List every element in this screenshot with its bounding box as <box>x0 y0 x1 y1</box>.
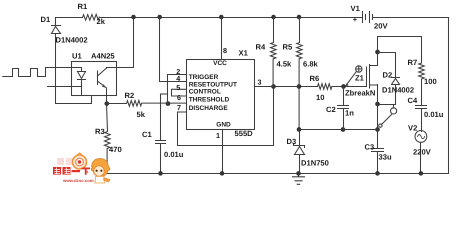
svg-text:R2: R2 <box>125 91 135 100</box>
label D1N750 <box>301 159 329 168</box>
svg-text:RESETOUTPUT: RESETOUTPUT <box>189 81 237 88</box>
source V2 <box>415 131 427 174</box>
wire collector to rail <box>107 18 134 68</box>
label D3 <box>287 137 297 146</box>
resistor R2 <box>107 100 187 106</box>
node R5 rail junction <box>297 15 302 20</box>
node emitter junction <box>104 101 109 106</box>
label R7 <box>408 58 418 67</box>
wire pin8 vcc <box>221 18 223 60</box>
svg-text:470: 470 <box>109 145 122 154</box>
node collector rail junction <box>131 15 136 20</box>
diode D2 <box>392 78 400 105</box>
node C2 bottom junction <box>341 127 346 132</box>
label 4.5k <box>277 60 293 69</box>
svg-text:7: 7 <box>177 103 181 112</box>
label D2 <box>383 70 393 79</box>
svg-text:C4: C4 <box>408 96 418 105</box>
svg-text:0.01u: 0.01u <box>164 150 184 159</box>
label V2 <box>408 124 417 133</box>
svg-text:D2: D2 <box>383 70 393 79</box>
svg-text:6: 6 <box>177 93 181 102</box>
pin number 3 <box>258 78 262 87</box>
phototransistor <box>98 68 107 104</box>
label 5k <box>137 110 146 119</box>
label 33u <box>379 153 392 162</box>
wire pin4 reset <box>160 18 187 82</box>
optocoupler U1 box <box>72 62 117 96</box>
label X1 <box>239 49 249 58</box>
svg-text:R7: R7 <box>408 58 418 67</box>
watermark badge mascot <box>73 153 87 169</box>
node drain junction <box>375 50 380 55</box>
label Z1 <box>355 74 365 83</box>
node pin4 rail junction <box>157 15 162 20</box>
label DISCHARGE <box>189 105 229 112</box>
watermark girl mascot <box>91 159 110 184</box>
svg-text:555D: 555D <box>235 129 254 138</box>
probe marker Z1 <box>346 66 362 87</box>
svg-text:D3: D3 <box>287 137 297 146</box>
wire pin3 output <box>255 86 367 88</box>
wire pin1 gnd <box>222 130 224 174</box>
pin number 6 <box>177 93 181 102</box>
label C1 <box>142 130 152 139</box>
label CONTROL <box>189 89 221 96</box>
battery V1 <box>363 12 373 23</box>
label C2 <box>326 105 336 114</box>
resistor R3 <box>104 104 110 174</box>
label 20V <box>374 22 388 31</box>
wire top rail left <box>56 17 363 19</box>
resistor R4 <box>270 18 276 87</box>
svg-text:100: 100 <box>424 77 437 86</box>
label R4 <box>256 43 266 52</box>
svg-text:0.01u: 0.01u <box>424 110 444 119</box>
label D1 <box>41 15 51 24</box>
svg-text:5k: 5k <box>137 110 146 119</box>
label 6.8k <box>303 60 319 69</box>
label D1N4002 of D2 <box>382 86 414 95</box>
label 555D <box>235 129 254 138</box>
label 2k <box>97 17 106 26</box>
svg-text:D1N750: D1N750 <box>301 159 329 168</box>
node zener top junction <box>297 127 302 132</box>
pin number 8 <box>223 46 227 55</box>
LED in optocoupler <box>78 72 86 96</box>
svg-text:C3: C3 <box>365 143 375 152</box>
svg-text:THRESHOLD: THRESHOLD <box>189 97 230 104</box>
label A4N25 <box>91 52 115 61</box>
svg-text:D1N4002: D1N4002 <box>56 36 88 45</box>
wire pin6 threshold <box>172 95 187 97</box>
pin number 7 <box>177 103 181 112</box>
svg-text:R5: R5 <box>283 43 293 52</box>
svg-text:D1N4002: D1N4002 <box>382 86 414 95</box>
watermark text weiku <box>53 167 90 175</box>
label R3 <box>95 127 105 136</box>
svg-text:www.dzsc.com: www.dzsc.com <box>62 178 94 183</box>
square wave source <box>3 68 46 77</box>
svg-text:V2: V2 <box>408 124 417 133</box>
svg-text:1n: 1n <box>345 109 354 118</box>
label R2 <box>125 91 135 100</box>
node R4 rail junction <box>271 15 276 20</box>
svg-text:5: 5 <box>176 83 180 92</box>
svg-text:8: 8 <box>223 46 227 55</box>
watermark url www.dzsc.com <box>62 178 94 183</box>
pin number 4 <box>176 74 180 83</box>
wire left column <box>56 18 92 104</box>
svg-text:D1: D1 <box>41 15 51 24</box>
label 0.01u of C4 <box>424 110 444 119</box>
svg-text:A4N25: A4N25 <box>91 52 115 61</box>
svg-text:+: + <box>353 15 358 24</box>
label VCC <box>213 60 227 67</box>
svg-text:X1: X1 <box>239 49 249 58</box>
svg-text:10: 10 <box>316 93 324 102</box>
wire top rail right of battery <box>373 17 449 19</box>
ground <box>293 174 305 185</box>
label plus of V1 <box>353 15 358 24</box>
resistor R5 <box>296 18 302 130</box>
svg-text:2k: 2k <box>97 17 106 26</box>
diode D3 zener <box>294 130 305 174</box>
node source line right junction <box>375 127 380 132</box>
svg-text:R6: R6 <box>310 74 320 83</box>
watermark faint text <box>57 158 81 165</box>
label 10 <box>316 93 324 102</box>
label 1n <box>345 109 354 118</box>
svg-text:R4: R4 <box>256 43 266 52</box>
label V1 <box>351 4 361 13</box>
svg-text:R3: R3 <box>95 127 105 136</box>
svg-text:TRIGGER: TRIGGER <box>189 74 219 81</box>
pin number 5 <box>176 83 180 92</box>
wire bottom rail <box>108 173 449 175</box>
capacitor C1 <box>156 95 166 174</box>
wire C1 jog <box>161 93 168 95</box>
label C3 <box>365 143 375 152</box>
pin number 2 <box>176 67 180 76</box>
wire D2 top <box>378 53 396 78</box>
svg-text:20V: 20V <box>374 22 388 31</box>
node R4 output junction <box>271 84 276 89</box>
resistor R1 <box>83 14 100 20</box>
node V2 rail junction <box>419 171 424 176</box>
svg-text:VCC: VCC <box>213 60 227 67</box>
resistor R7 <box>419 63 425 106</box>
label U1 <box>72 52 82 61</box>
capacitor C4 <box>416 106 427 132</box>
label TRIGGER <box>189 74 219 81</box>
capacitor C3 <box>372 149 384 174</box>
svg-text:R1: R1 <box>78 2 88 11</box>
svg-text:V1: V1 <box>351 4 361 13</box>
node pin8 rail junction <box>219 15 224 20</box>
transistor Z1 mosfet <box>367 65 378 89</box>
svg-text:4.5k: 4.5k <box>277 60 293 69</box>
node trigger junction <box>166 101 171 106</box>
svg-text:33u: 33u <box>379 153 392 162</box>
resistor R6 <box>318 84 332 90</box>
wire D2 bottom <box>378 104 396 106</box>
svg-text:DISCHARGE: DISCHARGE <box>189 105 229 112</box>
label 0.01u of C1 <box>164 150 184 159</box>
wire LED anode <box>46 68 82 72</box>
node source top junction <box>375 102 380 107</box>
wire source line y130 <box>300 129 378 131</box>
diode D1 <box>52 26 61 34</box>
node pin1 rail junction <box>220 171 225 176</box>
label R1 <box>78 2 88 11</box>
svg-text:ZbreakN: ZbreakN <box>345 89 375 98</box>
svg-text:U1: U1 <box>72 52 82 61</box>
label R6 <box>310 74 320 83</box>
label ZbreakN <box>345 89 375 98</box>
svg-text:220V: 220V <box>413 148 432 157</box>
wire source column <box>377 85 379 149</box>
node ground rail junction <box>296 171 301 176</box>
node gate junction <box>341 84 346 89</box>
node C3 rail junction <box>375 171 380 176</box>
label THRESHOLD <box>189 97 230 104</box>
svg-text:C2: C2 <box>326 105 336 114</box>
label D1N4002 of D1 <box>56 36 88 45</box>
label 220V <box>413 148 432 157</box>
label GND <box>216 121 231 128</box>
svg-text:Z1: Z1 <box>355 74 365 83</box>
wire LED cathode stub A <box>48 86 82 88</box>
svg-text:6.8k: 6.8k <box>303 60 319 69</box>
wire drain <box>378 37 422 66</box>
wire right edge <box>448 18 450 174</box>
node R5 output junction <box>297 84 302 89</box>
svg-text:4: 4 <box>176 74 180 83</box>
pin number 1 <box>216 131 220 140</box>
label C4 <box>408 96 418 105</box>
wire pin7 discharge loop <box>178 87 274 146</box>
svg-text:GND: GND <box>216 121 231 128</box>
switch <box>379 105 397 128</box>
svg-text:3: 3 <box>258 78 262 87</box>
label 100 <box>424 77 437 86</box>
capacitor C2 <box>338 87 349 130</box>
op-amp 555 timer U555 box <box>187 60 255 130</box>
svg-text:C1: C1 <box>142 130 152 139</box>
label RESETOUTPUT <box>189 81 237 88</box>
svg-text:1: 1 <box>216 131 220 140</box>
svg-text:CONTROL: CONTROL <box>189 89 221 96</box>
label R5 <box>283 43 293 52</box>
label 470 <box>109 145 122 154</box>
wire pin5 control <box>172 89 187 96</box>
wire pin2 trigger <box>168 75 187 104</box>
node C1 rail junction <box>158 171 163 176</box>
